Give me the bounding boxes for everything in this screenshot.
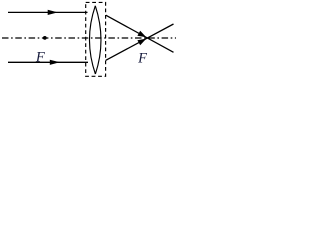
- arrowhead of bottom refracted ray: [137, 39, 146, 46]
- svg-text:F: F: [137, 50, 147, 66]
- arrowhead of top refracted ray: [137, 31, 146, 38]
- optical axis (dash-dot): [2, 37, 176, 39]
- svg-text:F: F: [35, 50, 45, 66]
- top refracted ray (through focus): [106, 15, 174, 52]
- top incoming ray: [8, 11, 88, 13]
- arrowhead of bottom incoming ray: [50, 60, 60, 65]
- left focal point dot: [43, 36, 47, 40]
- lens left surface: [89, 6, 95, 74]
- bottom incoming ray: [8, 61, 88, 63]
- arrowhead of top incoming ray: [48, 10, 58, 15]
- bottom refracted ray (through focus): [106, 24, 174, 60]
- lens right surface: [95, 6, 101, 74]
- dashed rectangle around lens: [86, 2, 106, 76]
